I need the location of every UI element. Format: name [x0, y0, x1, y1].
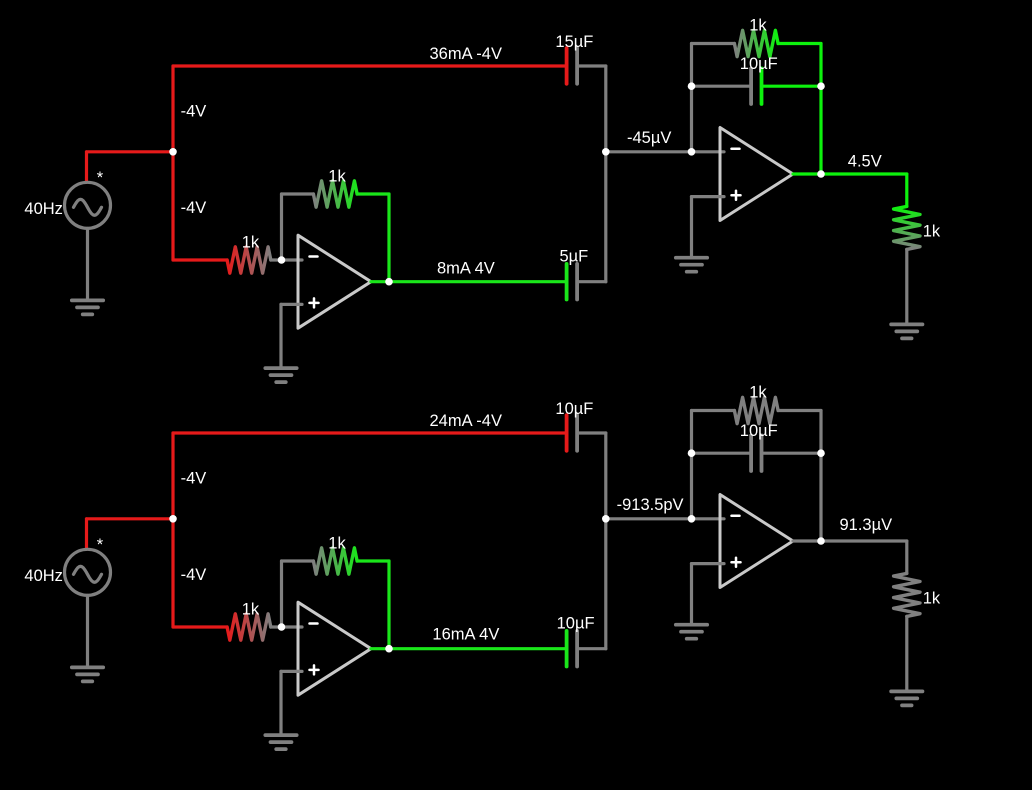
- wire source to node: [87, 517, 174, 520]
- wire U2 non-inverting input: [692, 562, 725, 565]
- svg-text:1k: 1k: [242, 600, 260, 618]
- wire U2 feedback column up: [690, 411, 693, 519]
- node summing junction: [602, 148, 610, 156]
- svg-text:10µF: 10µF: [740, 55, 778, 73]
- node U2 inverting junction: [688, 148, 696, 156]
- resistor R3 1k U2 feedback: [734, 30, 778, 56]
- wire U2 + to ground: [690, 564, 693, 625]
- svg-text:1k: 1k: [749, 17, 767, 35]
- node U2 inverting junction: [688, 515, 696, 523]
- node summing junction: [602, 515, 610, 523]
- svg-text:1k: 1k: [923, 590, 941, 608]
- wire feedback up: [280, 194, 283, 260]
- svg-text:36mA -4V: 36mA -4V: [430, 45, 502, 63]
- svg-text:10µF: 10µF: [555, 400, 593, 418]
- wire U2 feedback right column down: [819, 411, 822, 542]
- wire feedback top right: [357, 559, 389, 562]
- capacitor C1 15µF: [567, 48, 578, 84]
- capacitor C2 5µF: [567, 264, 578, 300]
- ground at U4 + input: [676, 625, 707, 639]
- capacitor C5 10µF: [567, 631, 578, 667]
- wire cap to corner: [577, 64, 606, 67]
- svg-text:1k: 1k: [328, 168, 346, 186]
- node feedback cap right: [817, 449, 825, 457]
- wire to ground: [279, 671, 282, 735]
- wire resistor to inverting input: [271, 258, 302, 261]
- voltage source V1 40Hz AC: [65, 182, 111, 228]
- wire non-inverting input: [281, 670, 302, 673]
- svg-text:24mA -4V: 24mA -4V: [430, 412, 502, 430]
- op-amp U2: [720, 128, 793, 221]
- op-amp U3: [298, 602, 371, 695]
- resistor R2 1k feedback: [313, 181, 357, 207]
- wire U2 + to ground: [690, 197, 693, 258]
- wire feedback down to output: [387, 561, 390, 649]
- op-amp U1: [298, 235, 371, 328]
- ground below load R8: [891, 691, 922, 705]
- wire feedback down to output: [387, 194, 390, 282]
- wire summing node to U2 input: [606, 150, 692, 153]
- resistor R6 1k feedback: [313, 548, 357, 574]
- wire summing node to U2 input: [606, 517, 692, 520]
- ground at U2 + input: [676, 258, 707, 272]
- node feedback cap left: [688, 449, 696, 457]
- wire corner up to mid node: [604, 152, 607, 282]
- wire output corner down: [905, 541, 908, 573]
- wire top row to capacitor: [173, 431, 567, 434]
- wire to feedback cap: [692, 85, 752, 88]
- node output junction: [385, 645, 393, 653]
- wire cap2 to corner: [577, 647, 606, 650]
- svg-text:-45µV: -45µV: [627, 129, 671, 147]
- ground below V2: [72, 667, 103, 681]
- svg-text:-4V: -4V: [181, 470, 207, 488]
- svg-text:40Hz: 40Hz: [24, 567, 63, 585]
- wire resistor to inverting input: [271, 625, 302, 628]
- capacitor C6 10µF feedback: [751, 435, 761, 471]
- wire main node column vertical: [171, 66, 174, 260]
- svg-text:-4V: -4V: [181, 566, 207, 584]
- node U2 output junction: [817, 537, 825, 545]
- capacitor C3 10µF feedback: [751, 68, 761, 104]
- wire feedback top left: [282, 192, 314, 195]
- wire V2 bottom lead: [86, 595, 89, 667]
- ground at U3 + input: [265, 735, 296, 749]
- wire opamp output: [371, 280, 567, 283]
- node feedback cap right: [817, 82, 825, 90]
- wire feedback top right: [357, 192, 389, 195]
- ground below V1: [72, 300, 103, 314]
- resistor R7 1k U2 feedback: [734, 397, 778, 423]
- svg-text:*: *: [97, 536, 104, 554]
- wire U2 feedback right column down: [819, 44, 822, 175]
- wire U2 non-inverting input: [692, 195, 725, 198]
- wire source to node: [87, 150, 174, 153]
- ground below load R4: [891, 324, 922, 338]
- wire to ground: [279, 304, 282, 368]
- wire to feedback cap: [692, 452, 752, 455]
- node main junction: [169, 515, 177, 523]
- svg-text:16mA 4V: 16mA 4V: [432, 626, 499, 644]
- svg-text:1k: 1k: [328, 535, 346, 553]
- wire U2 output: [793, 539, 907, 542]
- wire U2 feedback column up: [690, 44, 693, 152]
- resistor R1 1k input: [227, 247, 271, 273]
- node feedback cap left: [688, 82, 696, 90]
- wire node to input resistor: [173, 258, 227, 261]
- wire load to ground: [905, 616, 908, 691]
- wire feedback up: [280, 561, 283, 627]
- svg-text:5µF: 5µF: [560, 247, 589, 265]
- svg-text:40Hz: 40Hz: [24, 200, 63, 218]
- wire main node column vertical: [171, 433, 174, 627]
- wire to U2 inverting input: [692, 150, 725, 153]
- node output junction: [385, 278, 393, 286]
- svg-text:10µF: 10µF: [740, 422, 778, 440]
- wire V1 top lead: [85, 152, 88, 183]
- svg-text:4.5V: 4.5V: [848, 153, 882, 171]
- svg-text:-4V: -4V: [181, 103, 207, 121]
- svg-text:*: *: [97, 169, 104, 187]
- svg-text:10µF: 10µF: [557, 614, 595, 632]
- svg-text:91.3µV: 91.3µV: [840, 516, 893, 534]
- node inverting input junction: [278, 256, 286, 264]
- wire load to ground: [905, 249, 908, 324]
- wire corner down to mid node: [604, 66, 607, 152]
- wire feedback cap to right column: [762, 85, 822, 88]
- wire corner up to mid node: [604, 519, 607, 649]
- voltage source V2 40Hz AC: [65, 549, 111, 595]
- wire output corner down: [905, 174, 908, 206]
- svg-text:1k: 1k: [749, 384, 767, 402]
- wire feedback cap to right column: [762, 452, 822, 455]
- svg-text:1k: 1k: [242, 233, 260, 251]
- resistor R8 1k load: [894, 573, 920, 616]
- node U2 output junction: [817, 170, 825, 178]
- svg-text:1k: 1k: [923, 223, 941, 241]
- wire V2 top lead: [85, 519, 88, 550]
- resistor R5 1k input: [227, 614, 271, 640]
- node inverting input junction: [278, 623, 286, 631]
- wire U2 output: [793, 172, 907, 175]
- ground at U1 + input: [265, 368, 296, 382]
- wire cap to corner: [577, 431, 606, 434]
- wire U2 feedback top left: [692, 42, 735, 45]
- svg-text:-4V: -4V: [181, 199, 207, 217]
- wire U2 feedback top right: [778, 42, 821, 45]
- svg-text:8mA 4V: 8mA 4V: [437, 260, 495, 278]
- capacitor C4 10µF: [567, 415, 578, 451]
- wire U2 feedback top left: [692, 409, 735, 412]
- resistor R4 1k load: [894, 206, 920, 249]
- node main junction: [169, 148, 177, 156]
- wire U2 feedback top right: [778, 409, 821, 412]
- wire V1 bottom lead: [86, 228, 89, 300]
- wire to U2 inverting input: [692, 517, 725, 520]
- svg-text:-913.5pV: -913.5pV: [617, 496, 684, 514]
- wire corner down to mid node: [604, 433, 607, 519]
- wire non-inverting input: [281, 303, 302, 306]
- op-amp U4: [720, 495, 793, 588]
- wire opamp output: [371, 647, 567, 650]
- wire cap2 to corner: [577, 280, 606, 283]
- wire feedback top left: [282, 559, 314, 562]
- wire node to input resistor: [173, 625, 227, 628]
- svg-text:15µF: 15µF: [555, 33, 593, 51]
- wire top row to capacitor: [173, 64, 567, 67]
